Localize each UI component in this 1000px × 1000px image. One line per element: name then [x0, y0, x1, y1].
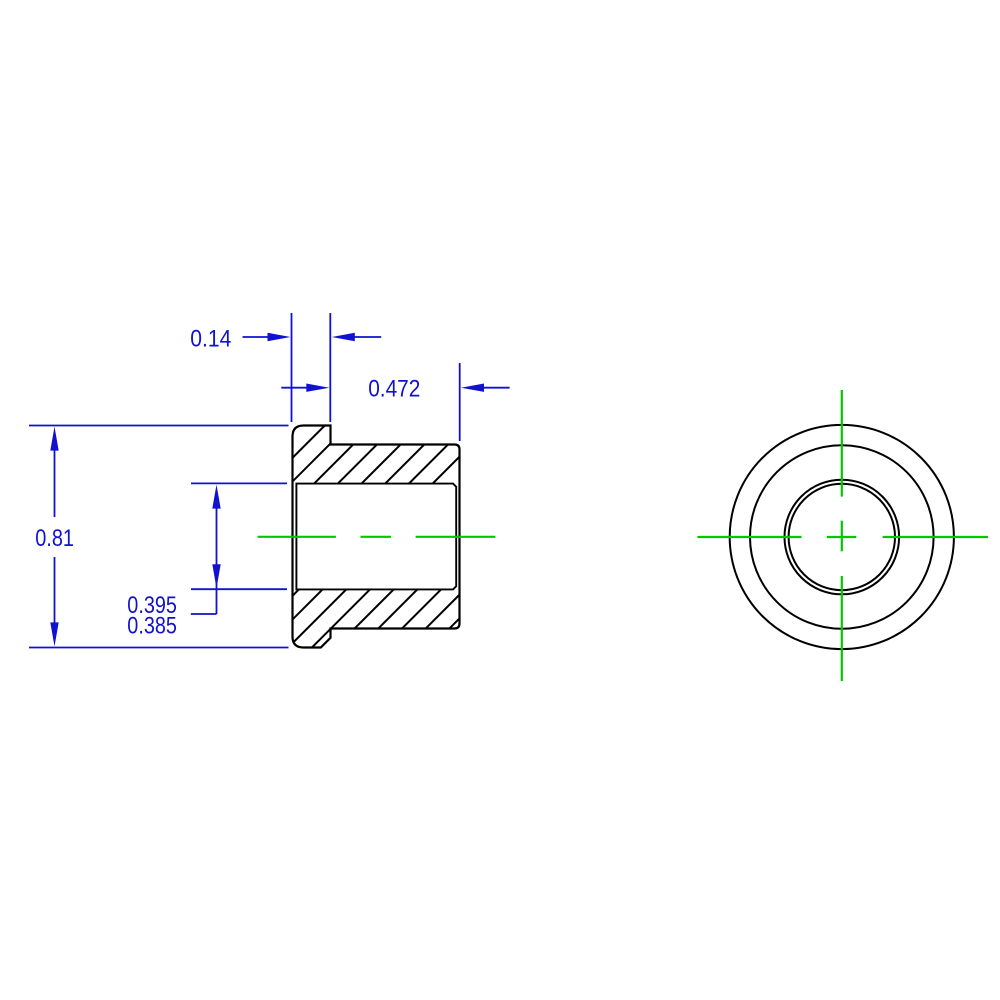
svg-text:0.81: 0.81: [35, 526, 74, 552]
svg-text:0.472: 0.472: [368, 376, 420, 402]
svg-text:0.14: 0.14: [190, 327, 231, 353]
svg-text:0.385: 0.385: [127, 614, 177, 640]
